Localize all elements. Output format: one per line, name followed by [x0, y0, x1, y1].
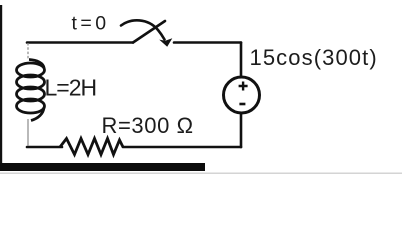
svg-text:L=2H: L=2H [45, 75, 97, 101]
svg-text:15cos(300t): 15cos(300t) [250, 45, 378, 70]
svg-text:t=0: t=0 [72, 13, 110, 35]
svg-text:R=300 Ω: R=300 Ω [102, 113, 194, 138]
